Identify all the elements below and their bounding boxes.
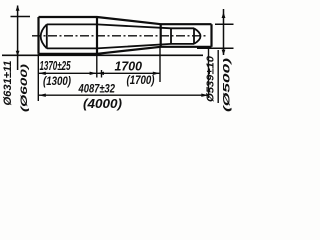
svg-text:Ø539±10: Ø539±10 bbox=[205, 56, 217, 102]
svg-text:(1300): (1300) bbox=[43, 76, 71, 88]
svg-text:(Ø500): (Ø500) bbox=[222, 58, 233, 112]
svg-text:(1700): (1700) bbox=[127, 75, 155, 87]
svg-text:1370±25: 1370±25 bbox=[40, 58, 71, 73]
svg-text:4087±32: 4087±32 bbox=[78, 84, 116, 96]
svg-text:1700: 1700 bbox=[115, 58, 143, 73]
svg-text:(Ø600): (Ø600) bbox=[19, 64, 30, 112]
svg-text:(4000): (4000) bbox=[83, 96, 122, 111]
svg-text:Ø631±11: Ø631±11 bbox=[2, 61, 14, 106]
